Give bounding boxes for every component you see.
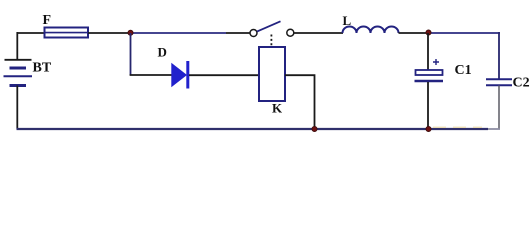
battery BT plate 2 (short thick) bbox=[10, 67, 27, 70]
relay coil K box bbox=[259, 47, 285, 101]
capacitor C2 bottom plate bbox=[486, 84, 512, 86]
capacitor C1 top plate bbox=[416, 70, 443, 75]
wire node B down to C1 bbox=[427, 33, 429, 70]
wire junction to switch bbox=[131, 32, 226, 34]
switch contact circle right bbox=[287, 29, 294, 36]
battery BT bottom lead wire bbox=[16, 86, 18, 130]
wire battery to fuse bbox=[17, 32, 46, 34]
svg-text:D: D bbox=[158, 45, 167, 60]
wire inductor to C1 node bbox=[399, 32, 429, 34]
wire C2 to bottom rail bbox=[498, 86, 500, 130]
diode D cathode bar bbox=[186, 61, 189, 89]
wire switch to inductor bbox=[294, 32, 343, 34]
junction dot node D bbox=[426, 126, 431, 131]
dashed link switch to relay bbox=[270, 35, 272, 49]
right side vertical wire top bbox=[498, 32, 500, 79]
svg-text:F: F bbox=[43, 13, 52, 28]
battery BT plate 4 (short thick) bbox=[10, 84, 27, 87]
wire diode to relay coil bbox=[189, 74, 259, 76]
diode D triangle bbox=[172, 64, 186, 86]
wire C1 to bottom rail bbox=[427, 82, 429, 129]
svg-text:C1: C1 bbox=[455, 63, 472, 78]
junction dot node C bbox=[312, 126, 317, 131]
switch contact circle left bbox=[250, 30, 257, 37]
battery BT plate 1 (long) bbox=[5, 59, 32, 61]
capacitor C1 plus sign bbox=[433, 59, 439, 65]
wire fuse to junction node bbox=[88, 32, 131, 34]
svg-text:BT: BT bbox=[33, 61, 52, 76]
junction dot node B bbox=[426, 30, 431, 35]
fuse F middle line bbox=[45, 32, 88, 34]
svg-text:C2: C2 bbox=[513, 76, 530, 91]
battery BT top lead wire bbox=[16, 32, 18, 60]
wire junction down to diode bbox=[130, 33, 132, 75]
wire to diode anode bbox=[130, 74, 172, 76]
bottom rail wire bbox=[17, 128, 489, 130]
battery BT plate 3 (long) bbox=[4, 75, 33, 77]
bottom rail faded end bbox=[488, 128, 500, 130]
capacitor C1 bottom plate bbox=[415, 80, 444, 82]
wire C1 node to right corner bbox=[428, 32, 500, 34]
svg-text:K: K bbox=[272, 100, 283, 115]
wire (black part) to switch contact bbox=[226, 32, 250, 34]
junction dot node A bbox=[128, 30, 133, 35]
wire relay to bottom rail bbox=[285, 75, 315, 129]
faint scan artifact line bbox=[433, 126, 482, 128]
fuse F body bbox=[45, 28, 89, 38]
inductor L coil bbox=[343, 27, 399, 33]
switch blade bbox=[257, 21, 281, 31]
capacitor C2 top plate bbox=[486, 78, 512, 80]
